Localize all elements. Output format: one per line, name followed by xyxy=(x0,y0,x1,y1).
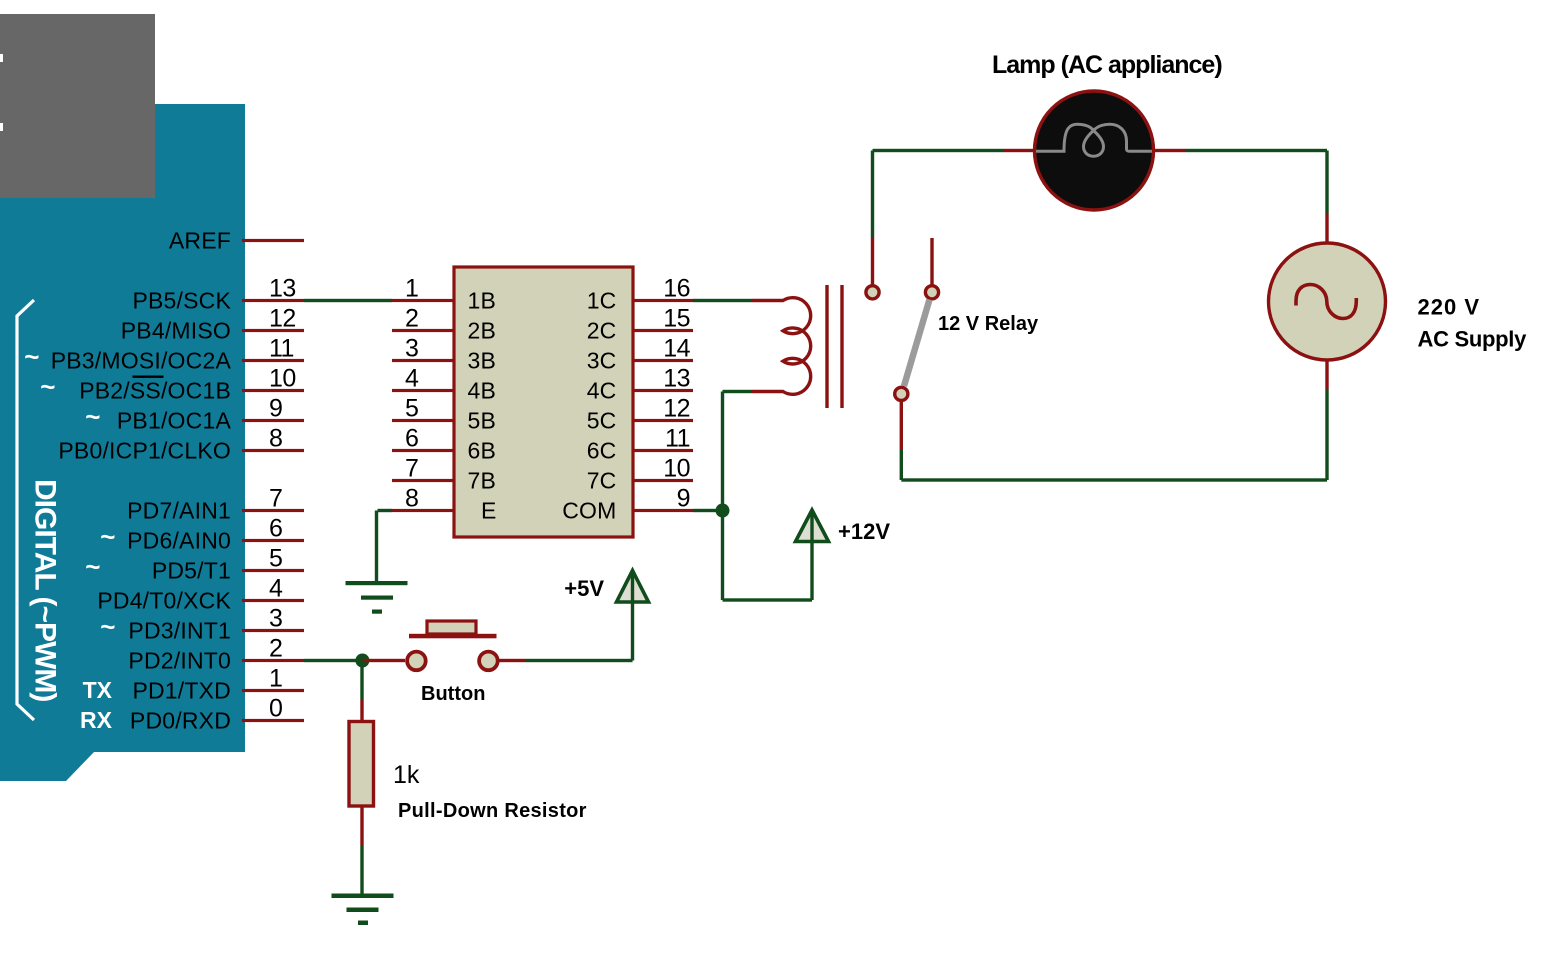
svg-text:2: 2 xyxy=(269,635,282,663)
lamp left lead xyxy=(1003,149,1035,152)
svg-text:PD4/T0/XCK: PD4/T0/XCK xyxy=(97,588,231,614)
wire COM to +12V junction xyxy=(693,509,723,512)
AC supply bottom lead xyxy=(1325,360,1328,390)
Arduino pin PD3 xyxy=(100,605,304,644)
svg-text:PB1/OC1A: PB1/OC1A xyxy=(117,408,232,434)
svg-text:3: 3 xyxy=(269,605,282,633)
Arduino pin PB1 xyxy=(85,395,304,434)
svg-text:~: ~ xyxy=(85,402,100,432)
lamp right lead xyxy=(1153,149,1185,152)
svg-text:2C: 2C xyxy=(587,318,617,344)
relay switch common contact xyxy=(895,387,908,400)
svg-text:~: ~ xyxy=(100,612,115,642)
relay RL1 coil xyxy=(752,298,811,395)
svg-text:Button: Button xyxy=(421,683,485,705)
USB connector J1 xyxy=(0,14,155,198)
relay switch pole contact xyxy=(866,286,879,299)
svg-text:2: 2 xyxy=(405,305,418,333)
svg-text:12: 12 xyxy=(269,305,296,333)
resistor R1 1k body xyxy=(349,722,374,807)
resistor R1 bottom lead xyxy=(360,807,363,845)
U2 pin 2 (2B) xyxy=(392,305,496,344)
svg-text:11: 11 xyxy=(665,425,690,453)
svg-text:PB0/ICP1/CLKO: PB0/ICP1/CLKO xyxy=(58,438,231,464)
svg-text:16: 16 xyxy=(663,275,690,303)
svg-text:PB4/MISO: PB4/MISO xyxy=(121,318,231,344)
svg-text:9: 9 xyxy=(269,395,282,423)
AC supply top lead xyxy=(1325,214,1328,244)
Arduino pin PD5 xyxy=(85,545,304,584)
svg-text:12: 12 xyxy=(663,395,690,423)
svg-text:4: 4 xyxy=(405,365,419,393)
svg-text:9: 9 xyxy=(677,485,690,513)
wire lamp to AC supply top xyxy=(1185,149,1327,152)
svg-text:~: ~ xyxy=(85,552,100,582)
AC supply V1 sine symbol xyxy=(1296,285,1356,319)
wire PD2 to junction xyxy=(304,659,362,662)
Arduino pin PD6 xyxy=(100,515,304,554)
ground GND2 (resistor) xyxy=(332,894,394,926)
svg-text:6: 6 xyxy=(405,425,418,453)
svg-text:6C: 6C xyxy=(587,438,617,464)
node junction PD2/button/resistor xyxy=(355,654,369,668)
Arduino pin PB4 xyxy=(121,305,304,344)
wire PB5/13 to U2 pin1 xyxy=(304,299,392,302)
U2 pin 4 (4B) xyxy=(392,365,496,404)
svg-text:1: 1 xyxy=(269,665,282,693)
svg-text:AC Supply: AC Supply xyxy=(1418,327,1528,352)
svg-text:7: 7 xyxy=(269,485,282,513)
wire E pin to ground xyxy=(378,509,393,512)
button S1 cap xyxy=(427,621,476,634)
U2 pin 14 (3C) xyxy=(587,335,693,374)
svg-text:PD2/INT0: PD2/INT0 xyxy=(128,648,231,674)
svg-text:+5V: +5V xyxy=(564,576,604,601)
svg-text:4: 4 xyxy=(269,575,283,603)
svg-text:~: ~ xyxy=(40,372,55,402)
relay RL1 core xyxy=(825,285,828,408)
svg-text:PD6/AIN0: PD6/AIN0 xyxy=(127,528,231,554)
svg-text:PD5/T1: PD5/T1 xyxy=(152,558,231,584)
svg-text:6B: 6B xyxy=(468,438,497,464)
svg-text:5C: 5C xyxy=(587,408,617,434)
svg-text:DIGITAL (~PWM): DIGITAL (~PWM) xyxy=(29,479,62,701)
ground GND1 (E pin) xyxy=(346,581,408,614)
svg-text:~: ~ xyxy=(24,342,39,372)
relay switch NC stub xyxy=(930,238,933,285)
svg-text:PB2/SS/OC1B: PB2/SS/OC1B xyxy=(79,378,231,404)
svg-text:PB5/SCK: PB5/SCK xyxy=(132,288,231,314)
relay switch common stub xyxy=(900,402,903,450)
svg-text:PD1/TXD: PD1/TXD xyxy=(132,678,231,704)
relay switch blade xyxy=(904,300,930,387)
svg-text:5: 5 xyxy=(405,395,418,423)
svg-text:10: 10 xyxy=(663,455,690,483)
button S1 right contact xyxy=(479,652,498,671)
svg-text:13: 13 xyxy=(269,275,296,303)
svg-text:1k: 1k xyxy=(393,761,420,789)
svg-text:15: 15 xyxy=(663,305,690,333)
svg-text:10: 10 xyxy=(269,365,296,393)
svg-text:2B: 2B xyxy=(468,318,497,344)
svg-text:4B: 4B xyxy=(468,378,497,404)
relay switch pole stub (from lamp) xyxy=(871,238,874,285)
U2 pin 5 (5B) xyxy=(392,395,496,434)
svg-text:220 V: 220 V xyxy=(1418,294,1481,319)
svg-text:1C: 1C xyxy=(587,288,617,314)
Arduino pin PB5 xyxy=(132,275,304,314)
svg-text:3B: 3B xyxy=(468,348,497,374)
wire button to +5V xyxy=(498,659,526,662)
svg-text:5B: 5B xyxy=(468,408,497,434)
svg-text:11: 11 xyxy=(269,335,294,363)
U2 pin 7 (7B) xyxy=(392,455,496,494)
svg-text:TX: TX xyxy=(83,677,113,703)
wire junction to button xyxy=(362,659,405,662)
svg-text:Lamp (AC appliance): Lamp (AC appliance) xyxy=(992,51,1222,79)
svg-text:8: 8 xyxy=(269,425,282,453)
svg-text:PB3/MOSI/OC2A: PB3/MOSI/OC2A xyxy=(51,348,232,374)
U2 pin 3 (3B) xyxy=(392,335,496,374)
wire junction up to relay coil xyxy=(721,392,724,511)
Arduino board body U1 xyxy=(0,104,245,781)
svg-text:13: 13 xyxy=(663,365,690,393)
Arduino pin PD7 xyxy=(127,485,304,524)
lamp LP1 body xyxy=(1035,91,1154,210)
svg-text:3C: 3C xyxy=(587,348,617,374)
svg-text:~: ~ xyxy=(100,522,115,552)
svg-text:5: 5 xyxy=(269,545,282,573)
U2 pin 1 (1B) xyxy=(392,275,496,314)
svg-text:PD7/AIN1: PD7/AIN1 xyxy=(127,498,231,524)
svg-text:7B: 7B xyxy=(468,468,497,494)
button S1 left contact xyxy=(407,652,426,671)
U2 pin 9 (COM) xyxy=(562,485,693,524)
U2 pin 11 (6C) xyxy=(587,425,693,464)
wire relay pole up and to lamp xyxy=(871,151,874,239)
wire junction down to +12V arrow xyxy=(721,511,724,601)
Arduino pin PD1 xyxy=(132,665,304,704)
AC supply V1 body xyxy=(1269,243,1386,360)
svg-text:E: E xyxy=(481,498,497,524)
svg-text:PD0/RXD: PD0/RXD xyxy=(130,708,231,734)
svg-text:AREF: AREF xyxy=(169,228,231,254)
svg-text:6: 6 xyxy=(269,515,282,543)
U2 pin 8 (E) xyxy=(392,485,497,524)
svg-text:7: 7 xyxy=(405,455,418,483)
svg-text:7C: 7C xyxy=(587,468,617,494)
wire U2 1C to relay coil xyxy=(693,299,752,302)
svg-text:0: 0 xyxy=(269,695,282,723)
U2 pin 12 (5C) xyxy=(587,395,693,434)
U2 pin 16 (1C) xyxy=(587,275,693,314)
U2 pin 15 (2C) xyxy=(587,305,693,344)
svg-text:1: 1 xyxy=(405,275,418,303)
svg-text:1B: 1B xyxy=(468,288,497,314)
Arduino pin PD0 xyxy=(130,695,304,734)
Arduino pin PD4 xyxy=(97,575,304,614)
svg-text:4C: 4C xyxy=(587,378,617,404)
svg-text:PD3/INT1: PD3/INT1 xyxy=(128,618,231,644)
wire AC supply to relay common xyxy=(1325,390,1328,480)
svg-text:8: 8 xyxy=(405,485,418,513)
power +12V arrow xyxy=(796,510,829,542)
Arduino pin PB0 xyxy=(58,425,304,464)
U2 pin 10 (7C) xyxy=(587,455,693,494)
relay switch NC contact xyxy=(925,286,938,299)
svg-text:Pull-Down Resistor: Pull-Down Resistor xyxy=(398,800,587,822)
lamp LP1 filament xyxy=(1036,124,1152,156)
U2 pin 13 (4C) xyxy=(587,365,693,404)
svg-text:COM: COM xyxy=(562,498,616,524)
Arduino pin PB2 xyxy=(40,365,304,404)
node junction COM/+12V/relay-coil xyxy=(716,504,730,518)
svg-text:14: 14 xyxy=(663,335,690,363)
svg-text:+12V: +12V xyxy=(838,519,890,544)
driver IC U2 body xyxy=(454,267,633,537)
svg-text:RX: RX xyxy=(80,707,113,733)
wire junction down to resistor xyxy=(360,661,363,701)
svg-text:3: 3 xyxy=(405,335,418,363)
DIGITAL (~PWM) bracket xyxy=(17,300,34,720)
power +5V arrow xyxy=(617,571,649,603)
Arduino pin PD2 xyxy=(128,635,304,674)
button S1 actuator bar xyxy=(409,634,497,639)
U2 pin 6 (6B) xyxy=(392,425,496,464)
Arduino pin AREF xyxy=(169,228,304,254)
USB connector notches xyxy=(0,54,3,62)
Arduino pin PB3 xyxy=(24,335,304,374)
svg-text:12 V Relay: 12 V Relay xyxy=(938,313,1039,335)
